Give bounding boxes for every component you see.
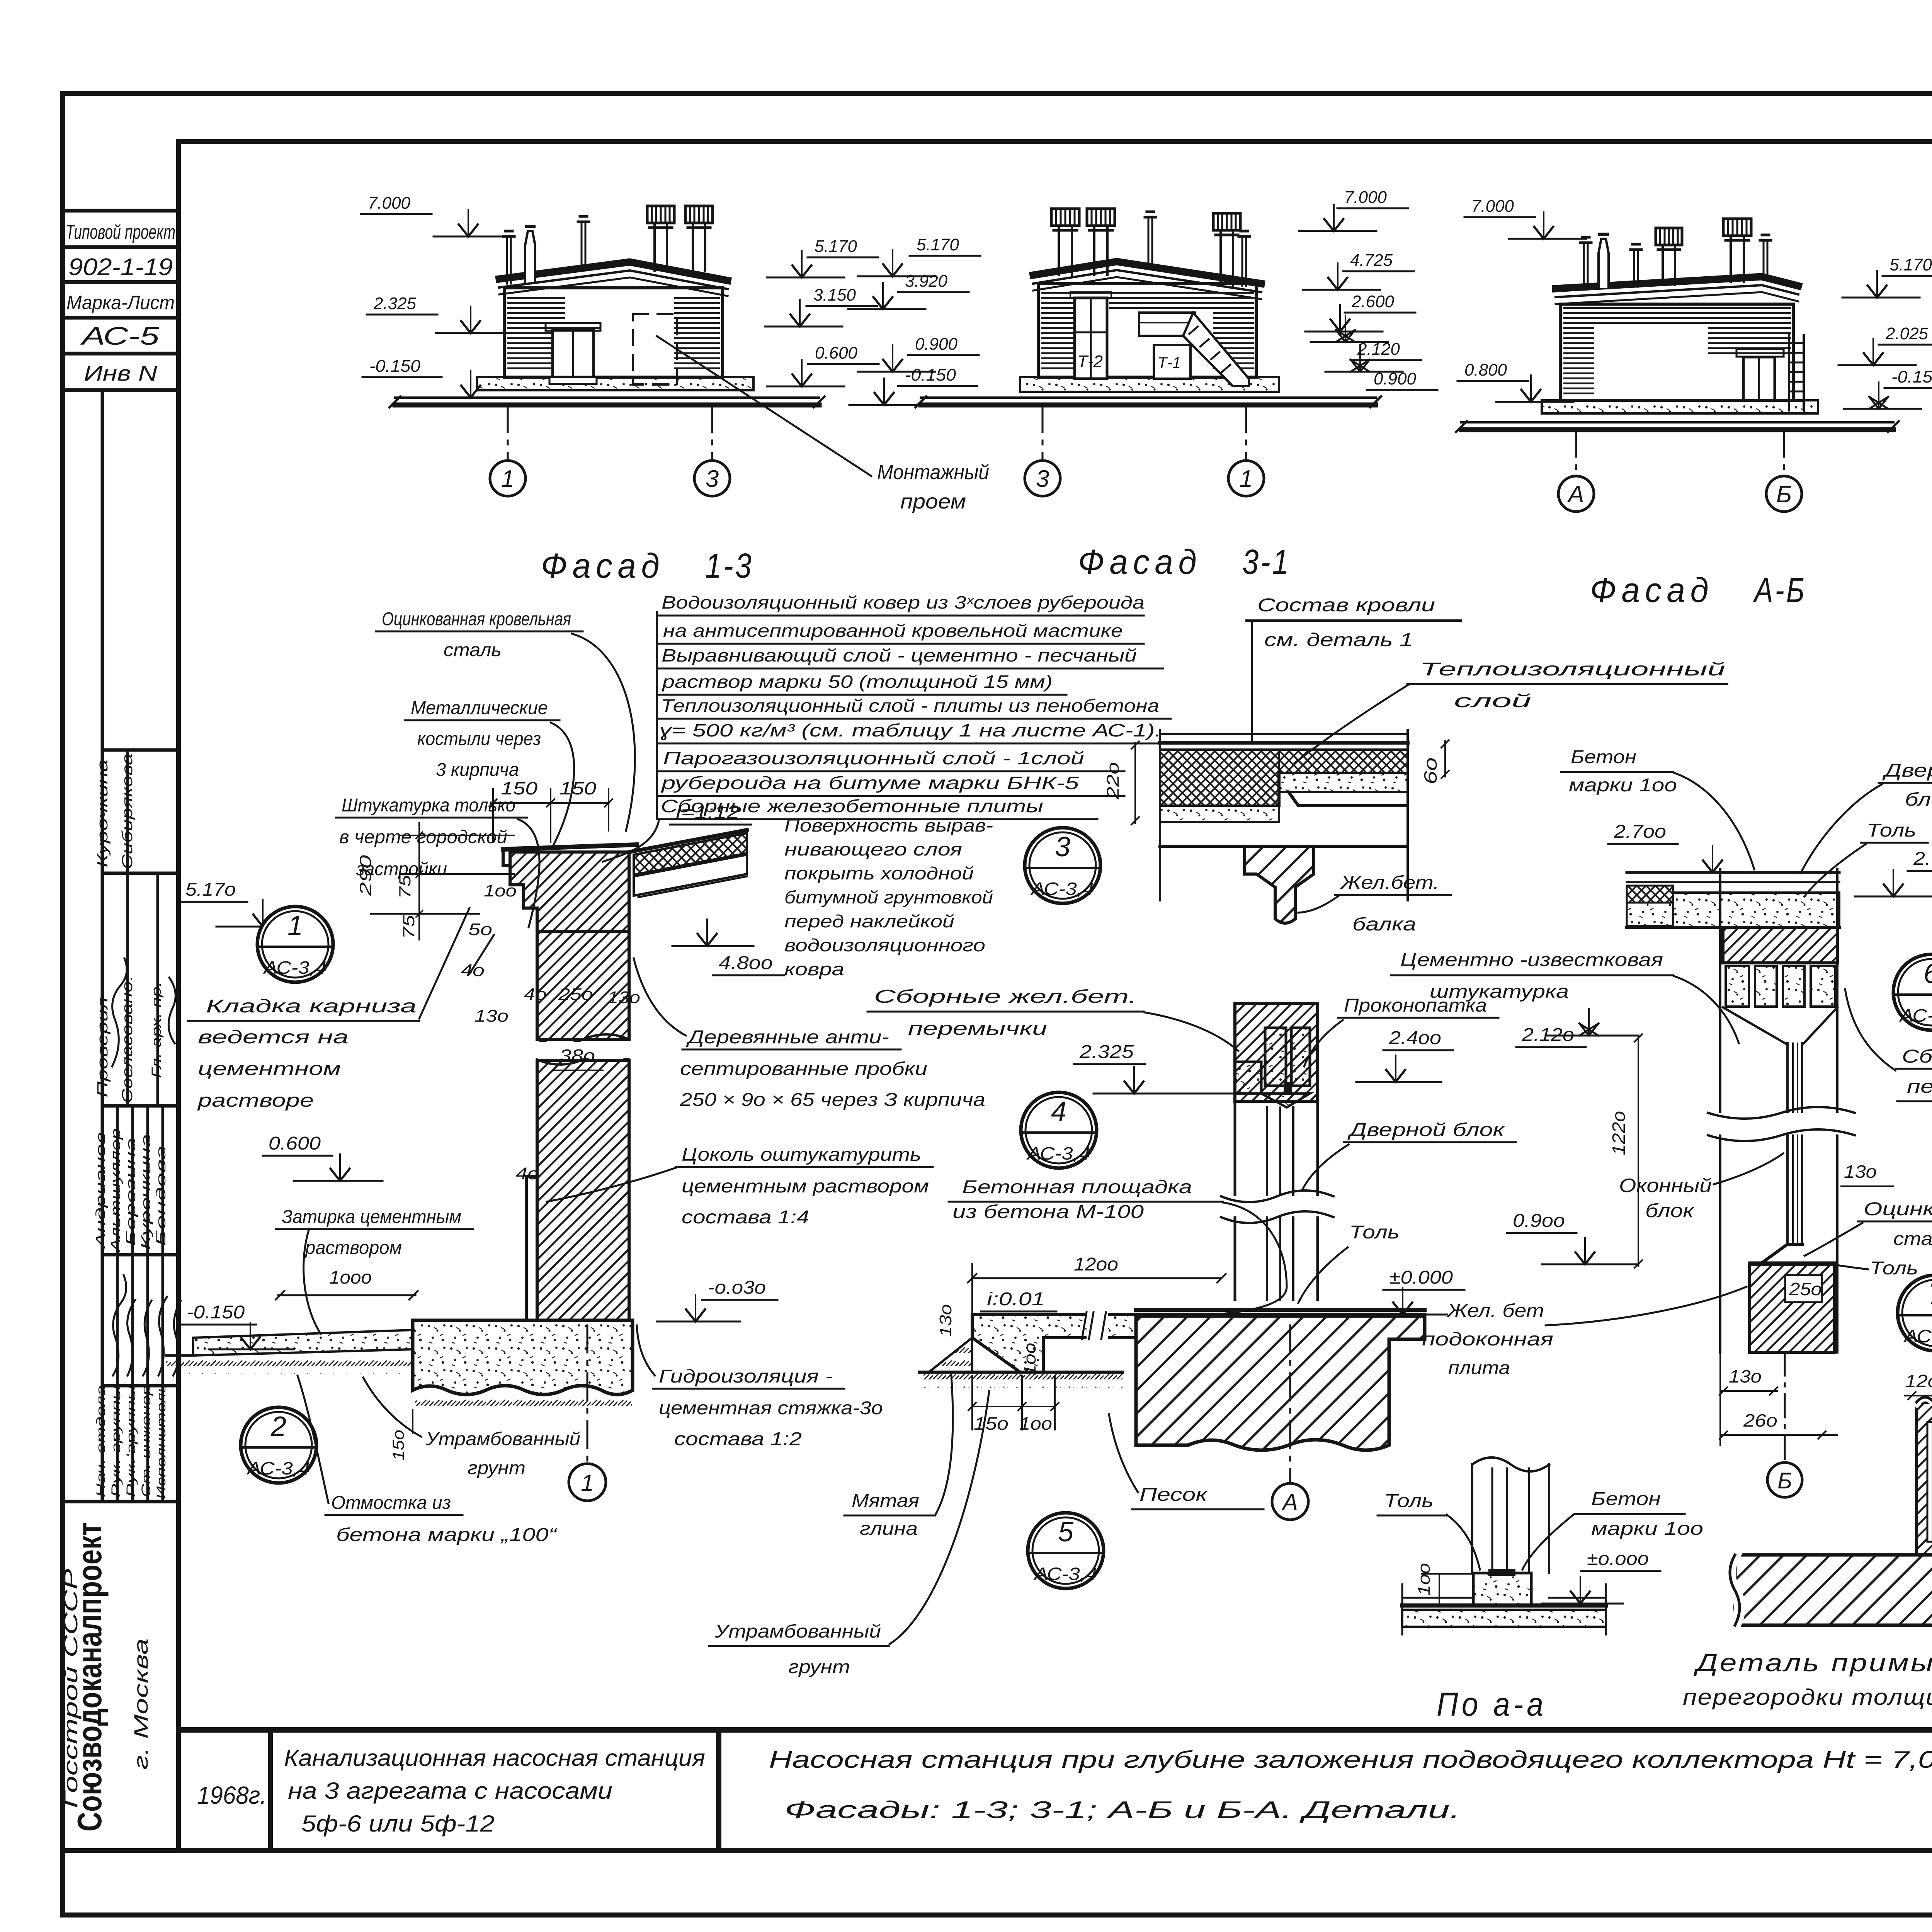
svg-text:5.170: 5.170: [917, 235, 959, 254]
svg-text:Водоизоляционный ковер из 3ˣсл: Водоизоляционный ковер из 3ˣслоев руберо…: [662, 592, 1145, 612]
svg-text:перед наклейкой: перед наклейкой: [784, 911, 954, 931]
break marks on door: [1221, 1196, 1333, 1216]
svg-text:из бетона М-100: из бетона М-100: [952, 1202, 1144, 1222]
svg-text:Оцинкованная: Оцинкованная: [1864, 1199, 1932, 1219]
callout 2 АС-3,4: [241, 1407, 316, 1483]
svg-text:12о: 12о: [1905, 1371, 1932, 1391]
svg-text:балка: балка: [1352, 914, 1416, 935]
svg-text:0.9оо: 0.9оо: [1513, 1211, 1565, 1231]
flashing over cornice: [503, 845, 637, 849]
lintel blocks: [1265, 1028, 1286, 1086]
svg-text:перемычки: перемычки: [1907, 1077, 1932, 1097]
door with canopy facade А-Б: [1743, 357, 1775, 400]
platform slab: [972, 1315, 1136, 1372]
dim 1220 vertical: [1638, 1036, 1639, 1266]
foundation mass right: [1136, 1315, 1425, 1450]
callout 5 АС-3,4: [1028, 1513, 1104, 1588]
svg-text:перемычки: перемычки: [908, 1019, 1047, 1039]
callout 1 АС-3,4: [257, 906, 333, 982]
wall lower part: [537, 1060, 629, 1320]
svg-text:i:0.01: i:0.01: [987, 1289, 1045, 1310]
svg-text:3-1: 3-1: [1242, 543, 1291, 582]
names table band lines: [102, 748, 179, 752]
facade 3-1 axis 1: [1245, 405, 1247, 461]
svg-text:Гидроизоляция -: Гидроизоляция -: [659, 1366, 833, 1387]
svg-text:Фасад: Фасад: [1590, 571, 1714, 610]
svg-text:состава 1:4: состава 1:4: [682, 1207, 809, 1228]
window frame verticals: [1786, 1043, 1789, 1242]
svg-text:2.600: 2.600: [1351, 292, 1395, 311]
svg-text:22о: 22о: [1104, 762, 1122, 799]
svg-text:12оо: 12оо: [1074, 1254, 1118, 1275]
dim 1000 under foundation left: [412, 1410, 413, 1434]
svg-text:26о: 26о: [1743, 1410, 1777, 1430]
facade 1-3 building: [389, 206, 825, 407]
svg-text:Альтшуллер: Альтшуллер: [109, 1128, 123, 1253]
svg-text:75: 75: [396, 874, 414, 899]
svg-text:1: 1: [287, 910, 303, 941]
svg-text:Бетон: Бетон: [1591, 1489, 1661, 1509]
window head funnel: [1723, 1007, 1837, 1043]
svg-text:Сибирякова: Сибирякова: [119, 753, 136, 869]
callout 3 АС-3,4: [1025, 828, 1100, 903]
svg-text:Штукатурка только: Штукатурка только: [342, 795, 515, 816]
svg-text:13о: 13о: [607, 988, 640, 1007]
svg-text:38о: 38о: [560, 1046, 595, 1066]
svg-text:проем: проем: [900, 490, 966, 513]
svg-text:Бетон: Бетон: [1571, 747, 1636, 767]
svg-text:6о: 6о: [1420, 757, 1440, 784]
leader slashes to cornice dims: [469, 935, 494, 974]
facade 1-3 axis 1: [507, 405, 509, 461]
dim 150 150 above cornice: [493, 802, 609, 804]
svg-text:плита: плита: [1448, 1358, 1510, 1378]
svg-text:122о: 122о: [1609, 1111, 1629, 1155]
svg-text:4.725: 4.725: [1350, 251, 1393, 270]
svg-text:Нач. отдела: Нач. отдела: [94, 1385, 108, 1497]
svg-text:7.000: 7.000: [1344, 188, 1387, 207]
svg-text:7: 7: [1928, 1279, 1932, 1310]
svg-text:г. Москва: г. Москва: [130, 1638, 152, 1770]
svg-text:Толь: Толь: [1349, 1222, 1400, 1243]
svg-text:подоконная: подоконная: [1422, 1329, 1553, 1350]
svg-text:Фасад: Фасад: [541, 547, 665, 585]
svg-text:блок: блок: [1645, 1200, 1695, 1221]
door frame verticals: [1234, 1101, 1236, 1300]
svg-text:13о: 13о: [474, 1007, 509, 1026]
ground hatch left: [166, 1355, 413, 1374]
svg-text:штукатурка: штукатурка: [1430, 981, 1569, 1002]
svg-text:Гл. арх. пр.: Гл. арх. пр.: [149, 981, 164, 1078]
svg-text:2: 2: [270, 1411, 286, 1442]
svg-text:состава 1:2: состава 1:2: [674, 1429, 802, 1449]
svg-text:6: 6: [1923, 958, 1932, 989]
svg-text:Дверной блок: Дверной блок: [1347, 1120, 1505, 1140]
break on platform: [1087, 1312, 1108, 1339]
svg-text:Сборные жел.бет.: Сборные жел.бет.: [874, 986, 1137, 1007]
svg-text:150: 150: [501, 778, 538, 798]
svg-text:0.600: 0.600: [815, 344, 858, 362]
svg-text:АС-3,4: АС-3,4: [1026, 1143, 1090, 1163]
svg-text:Союзводоканалпроект: Союзводоканалпроект: [70, 1522, 109, 1832]
svg-text:250 × 9о × 65 через З кирпич: 250 × 9о × 65 через З кирпича: [680, 1090, 985, 1110]
svg-text:Толь: Толь: [1384, 1491, 1434, 1511]
detail 3 roof slab: [1160, 730, 1408, 923]
facade А-Б axis А: [1575, 430, 1577, 476]
facade А-Б axis Б: [1783, 430, 1785, 476]
svg-text:7.000: 7.000: [1471, 197, 1514, 216]
svg-text:5о: 5о: [468, 920, 492, 939]
svg-text:в черте городской: в черте городской: [339, 827, 507, 847]
callout 4 АС-3,4: [1021, 1092, 1097, 1168]
svg-text:150: 150: [560, 778, 597, 798]
inner frame top: [179, 139, 1932, 144]
svg-text:По а-а: По а-а: [1437, 1686, 1547, 1723]
svg-text:Фасады: 1-3; 3-1; А-Б: Фасады: 1-3; 3-1; А-Б и Б-А. Детали.: [784, 1797, 1461, 1823]
svg-text:Металлические: Металлические: [411, 698, 548, 718]
svg-text:4.8оо: 4.8оо: [719, 953, 773, 973]
svg-text:15о: 15о: [389, 1430, 407, 1461]
leader from text block to cornice: [603, 821, 659, 862]
axis Б circle: [1784, 1352, 1786, 1463]
svg-text:Цоколь оштукатурить: Цоколь оштукатурить: [682, 1145, 921, 1165]
svg-text:Деревянные анти-: Деревянные анти-: [686, 1027, 889, 1048]
facade 3-1 building: [915, 209, 1381, 407]
svg-text:Теплоизоляционный: Теплоизоляционный: [1420, 659, 1725, 680]
detail 4 wall block over door: [1235, 1003, 1318, 1101]
svg-text:септированные пробки: септированные пробки: [680, 1059, 927, 1079]
svg-text:Кладка карниза: Кладка карниза: [206, 996, 417, 1017]
svg-text:4о: 4о: [524, 985, 547, 1004]
svg-text:2.6оо: 2.6оо: [1913, 849, 1932, 869]
svg-text:на антисептированной кровельн: на антисептированной кровельной мастике: [663, 621, 1123, 641]
svg-text:i=1:12: i=1:12: [676, 802, 740, 823]
svg-text:костыли через: костыли через: [417, 729, 541, 749]
svg-text:АС-3,4: АС-3,4: [1030, 879, 1094, 899]
svg-text:Мятая: Мятая: [852, 1491, 919, 1511]
svg-text:АС-3,4: АС-3,4: [246, 1458, 310, 1478]
slab of По а-а: [1402, 1604, 1606, 1608]
svg-text:1-3: 1-3: [705, 547, 753, 585]
svg-text:3.920: 3.920: [905, 272, 948, 291]
svg-text:битумной грунтовкой: битумной грунтовкой: [784, 887, 993, 907]
door posts: [1471, 1464, 1473, 1573]
svg-text:глина: глина: [860, 1519, 918, 1539]
svg-text:Монтажный: Монтажный: [877, 461, 989, 484]
svg-text:15о: 15о: [974, 1413, 1009, 1434]
detail 6 roof slab band: [1627, 871, 1839, 874]
wall verticals detail 6: [1719, 869, 1721, 1352]
svg-text:Песок: Песок: [1139, 1485, 1208, 1505]
svg-text:Исполнитель: Исполнитель: [154, 1383, 168, 1499]
svg-text:грунт: грунт: [468, 1458, 526, 1478]
svg-text:грунт: грунт: [788, 1657, 850, 1677]
svg-text:Т-2: Т-2: [1077, 352, 1103, 371]
break marks window: [1708, 1113, 1855, 1134]
sidebar right edge: [176, 141, 181, 1850]
roof slab sloping: [629, 830, 747, 852]
rotated names/titles: [94, 753, 168, 1499]
foundation block: [413, 1320, 633, 1395]
svg-text:2.7оо: 2.7оо: [1614, 821, 1666, 842]
cornice corbel: [510, 852, 629, 931]
svg-text:Курочкина: Курочкина: [139, 1134, 153, 1250]
svg-text:1оо: 1оо: [1020, 1343, 1039, 1376]
small lintel blocks row: [1726, 966, 1749, 1007]
svg-text:25о: 25о: [1789, 1279, 1822, 1299]
staircase: [1183, 313, 1249, 386]
mounting opening label: [657, 336, 871, 476]
svg-text:Рук. группы: Рук. группы: [109, 1385, 123, 1497]
partition strip: [1917, 1402, 1932, 1555]
TITLE BLOCK: [179, 1730, 1932, 1850]
clay wedge: [929, 1338, 972, 1372]
signature squiggles: [112, 958, 181, 1376]
svg-text:ɣ= 500 кг/м³ (см. таблицу 1: ɣ= 500 кг/м³ (см. таблицу 1 на листе АС-…: [659, 720, 1162, 740]
svg-text:слой: слой: [1454, 691, 1531, 711]
svg-text:-0.150: -0.150: [905, 366, 956, 384]
svg-text:Оконный: Оконный: [1619, 1175, 1712, 1196]
svg-text:сталь: сталь: [444, 640, 502, 660]
svg-text:Курочкина: Курочкина: [95, 759, 111, 867]
svg-text:902-1-19: 902-1-19: [68, 254, 173, 281]
svg-text:Затирка цементным: Затирка цементным: [282, 1207, 461, 1227]
wall upper part: [537, 931, 629, 1039]
door: [553, 330, 594, 377]
svg-text:Согласовано:: Согласовано:: [119, 976, 136, 1103]
svg-text:цементная стяжка-3о: цементная стяжка-3о: [659, 1398, 883, 1418]
wall break: [537, 1034, 629, 1065]
svg-text:Деталь примыкания кирпичной: Деталь примыкания кирпичной: [1694, 1649, 1932, 1677]
apron (отмостка): [193, 1330, 413, 1355]
svg-text:5.170: 5.170: [1889, 255, 1932, 274]
svg-text:25о: 25о: [558, 985, 593, 1004]
svg-text:3: 3: [1055, 832, 1070, 862]
door landing T-1 with stairs: [1139, 313, 1195, 336]
svg-text:-0.150: -0.150: [1891, 367, 1932, 386]
svg-text:Сборные жел.бет.: Сборные жел.бет.: [1902, 1046, 1932, 1067]
axis circle 1 below detail: [587, 1325, 588, 1464]
svg-text:Проверил: Проверил: [95, 997, 111, 1097]
org box bottom: [63, 1848, 179, 1853]
svg-text:0.900: 0.900: [915, 335, 958, 354]
chimneys facade 3-1: [1145, 212, 1156, 267]
svg-text:Березина: Березина: [124, 1138, 138, 1246]
svg-text:1: 1: [1240, 466, 1253, 492]
facade А-Б building: [1456, 219, 1899, 432]
svg-text:13о: 13о: [1844, 1162, 1877, 1182]
svg-text:75: 75: [400, 915, 418, 939]
svg-text:2.325: 2.325: [373, 294, 417, 313]
svg-text:ведется на: ведется на: [198, 1027, 349, 1048]
svg-text:13о: 13о: [1729, 1366, 1762, 1386]
svg-text:перегородки толщиной 12о мм: перегородки толщиной 12о мм к стене: [1683, 1685, 1932, 1710]
svg-text:1оо: 1оо: [1415, 1563, 1434, 1596]
sidebar top rows lines: [63, 209, 179, 213]
ground hatch under foundation: [415, 1393, 632, 1410]
svg-text:Т-1: Т-1: [1158, 354, 1181, 371]
svg-text:Цементно -известковая: Цементно -известковая: [1400, 950, 1663, 970]
svg-text:0.800: 0.800: [1464, 361, 1507, 379]
left border of text block: [656, 612, 658, 819]
svg-text:Парогазоизоляционный слой -: Парогазоизоляционный слой - 1слой: [663, 748, 1084, 768]
svg-text:290: 290: [356, 855, 374, 896]
svg-text:на 3 агрегата с насосами: на 3 агрегата с насосами: [288, 1778, 612, 1804]
svg-text:2.4оо: 2.4оо: [1389, 1028, 1441, 1048]
wall slab: [1735, 1555, 1932, 1625]
svg-text:ковра: ковра: [784, 959, 844, 979]
mounting opening dashed: [633, 314, 677, 384]
svg-text:АС-5: АС-5: [80, 321, 160, 350]
callout 6 АС-3,4: [1893, 954, 1932, 1030]
svg-text:Толь: Толь: [1870, 1258, 1918, 1279]
facade 1-3 axis 3: [711, 405, 713, 461]
svg-text:рубероида на битуме марки: рубероида на битуме марки БНК-5: [660, 773, 1079, 793]
svg-text:7.000: 7.000: [368, 194, 411, 213]
svg-text:3: 3: [1036, 466, 1049, 492]
svg-text:Ст. инженер: Ст. инженер: [139, 1385, 153, 1497]
svg-text:Канализационная насосная станц: Канализационная насосная станция: [284, 1745, 705, 1771]
svg-text:4: 4: [1051, 1096, 1066, 1127]
svg-text:1ооо: 1ооо: [329, 1267, 372, 1288]
svg-text:Б: Б: [1777, 1468, 1792, 1493]
vertical dim chain left of cornice: [418, 823, 420, 940]
svg-text:Бондова: Бондова: [154, 1146, 168, 1246]
chimneys facade 1-3: [503, 231, 514, 284]
svg-text:Фасад: Фасад: [1078, 543, 1202, 582]
svg-text:см. деталь 1: см. деталь 1: [1264, 630, 1413, 650]
svg-text:А-Б: А-Б: [1753, 571, 1806, 610]
svg-text:Бетонная площадка: Бетонная площадка: [962, 1177, 1192, 1197]
svg-text:-0.150: -0.150: [369, 357, 421, 376]
SIDEBAR STAMP COLUMN: [63, 211, 179, 1850]
svg-text:3.150: 3.150: [813, 286, 856, 304]
svg-text:±0.000: ±0.000: [1389, 1267, 1453, 1288]
table internal verticals: [126, 750, 129, 1106]
svg-text:нивающего слоя: нивающего слоя: [784, 839, 962, 859]
svg-text:3 кирпича: 3 кирпича: [436, 760, 519, 780]
svg-text:АС-3,4: АС-3,4: [1903, 1326, 1932, 1346]
svg-text:5.17о: 5.17о: [185, 879, 236, 900]
svg-text:2.325: 2.325: [1079, 1042, 1134, 1062]
svg-text:Толь: Толь: [1867, 820, 1916, 841]
svg-text:покрыть холодной: покрыть холодной: [784, 863, 974, 883]
ground line: [395, 396, 819, 399]
svg-text:цементном: цементном: [198, 1059, 341, 1079]
svg-text:5.170: 5.170: [815, 237, 857, 256]
svg-text:АС-3,4: АС-3,4: [1033, 1564, 1097, 1584]
svg-text:-о.о3о: -о.о3о: [708, 1277, 766, 1298]
svg-text:Жел.бет.: Жел.бет.: [1340, 872, 1439, 893]
sill flashing: [1762, 1244, 1802, 1263]
svg-text:2.025: 2.025: [1885, 324, 1929, 343]
pier under window: [1750, 1265, 1835, 1352]
axis А circle: [1289, 1325, 1291, 1483]
window T-2 facade 3-1: [1075, 298, 1107, 379]
svg-text:АС-3,4: АС-3,4: [1899, 1005, 1932, 1026]
svg-text:Теплоизоляционный слой - плиты: Теплоизоляционный слой - плиты из пенобе…: [661, 696, 1159, 716]
svg-text:-0.150: -0.150: [187, 1302, 245, 1323]
svg-text:А: А: [1566, 481, 1584, 508]
svg-text:Б: Б: [1776, 481, 1792, 508]
svg-text:3: 3: [706, 466, 719, 492]
ladder facade А-Б: [1788, 335, 1790, 410]
svg-text:водоизоляционного: водоизоляционного: [784, 935, 985, 955]
anchor bar: [1927, 1422, 1932, 1542]
svg-text:растворе: растворе: [197, 1090, 314, 1111]
svg-text:Инв N: Инв N: [84, 361, 158, 385]
plinth plaster edge: [526, 1176, 537, 1320]
svg-text:Выравнивающий слой - цементно: Выравнивающий слой - цементно - песчаный: [662, 645, 1137, 665]
callout 7 АС-3,4: [1898, 1275, 1932, 1351]
svg-text:Андрианов: Андрианов: [94, 1132, 108, 1249]
svg-text:блок: блок: [1905, 789, 1932, 810]
svg-text:Марка-Лист: Марка-Лист: [66, 292, 175, 313]
svg-text:Оцинкованная кровельная: Оцинкованная кровельная: [382, 609, 571, 629]
svg-text:бетона марки „100“: бетона марки „100“: [336, 1525, 558, 1545]
svg-text:1: 1: [581, 1470, 594, 1496]
svg-text:Жел. бет: Жел. бет: [1447, 1301, 1544, 1321]
chimneys facade А-Б: [1580, 237, 1591, 289]
facade 3-1 axis 3: [1042, 405, 1044, 461]
svg-text:1968г.: 1968г.: [197, 1781, 267, 1809]
svg-text:марки 1оо: марки 1оо: [1569, 775, 1677, 796]
svg-text:цементным раствором: цементным раствором: [682, 1176, 929, 1197]
svg-text:марки 1оо: марки 1оо: [1591, 1519, 1703, 1539]
svg-text:АС-3,4: АС-3,4: [263, 957, 327, 978]
floor line above foundation: [1136, 1308, 1425, 1312]
svg-text:1оо: 1оо: [484, 881, 517, 900]
svg-text:сталь: сталь: [1893, 1229, 1932, 1249]
svg-text:Насосная станция при глубин: Насосная станция при глубине заложения п…: [769, 1747, 1932, 1773]
svg-text:Рук.'группы: Рук.'группы: [124, 1385, 138, 1497]
svg-text:Дверной: Дверной: [1882, 760, 1932, 781]
svg-text:5: 5: [1058, 1517, 1074, 1548]
svg-text:0.600: 0.600: [269, 1133, 321, 1154]
left strip divider: [101, 390, 104, 1502]
svg-text:4о: 4о: [516, 1164, 539, 1183]
lintel block over window: [1723, 927, 1837, 963]
svg-text:13о: 13о: [936, 1304, 955, 1337]
base block: [1473, 1573, 1531, 1605]
svg-text:1: 1: [501, 466, 514, 492]
svg-text:раствором: раствором: [304, 1238, 402, 1258]
svg-text:1оо: 1оо: [1019, 1413, 1052, 1434]
svg-text:±о.ооо: ±о.ооо: [1587, 1549, 1649, 1569]
svg-text:раствор марки 50 (толщиной: раствор марки 50 (толщиной 15 мм): [661, 672, 1053, 692]
svg-text:Отмостка из: Отмостка из: [331, 1493, 451, 1513]
T-beam: [1245, 846, 1314, 923]
svg-text:Типовой проект: Типовой проект: [66, 221, 175, 243]
svg-text:А: А: [1281, 1489, 1298, 1515]
svg-text:Утрамбованный: Утрамбованный: [714, 1621, 881, 1642]
svg-text:Поверхность вырав-: Поверхность вырав-: [784, 815, 993, 835]
ground line under platform: [920, 1371, 1122, 1374]
svg-text:5ф-6 или 5ф-12: 5ф-6 или 5ф-12: [301, 1811, 495, 1837]
svg-text:Утрамбованный: Утрамбованный: [425, 1429, 580, 1449]
svg-text:Состав кровли: Состав кровли: [1257, 595, 1435, 616]
plinth strip: [477, 377, 753, 390]
